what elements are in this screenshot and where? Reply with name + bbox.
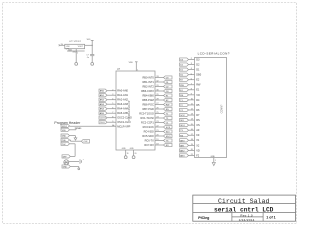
- svg-text:D2: D2: [196, 62, 200, 66]
- svg-text:18: 18: [191, 139, 193, 141]
- svg-text:7: 7: [191, 83, 192, 85]
- svg-text:RB5-PGM: RB5-PGM: [142, 98, 154, 102]
- svg-text:20: 20: [135, 153, 137, 155]
- svg-text:Circuit Salad: Circuit Salad: [218, 198, 269, 205]
- svg-text:C?: C?: [86, 54, 88, 56]
- svg-text:RS: RS: [180, 95, 184, 97]
- svg-text:CONN?: CONN?: [220, 104, 223, 113]
- svg-text:13: 13: [191, 114, 193, 116]
- svg-text:RC2-CCP1: RC2-CCP1: [141, 120, 154, 124]
- svg-text:OSC1-CLKI: OSC1-CLKI: [117, 120, 131, 124]
- svg-text:19: 19: [127, 153, 129, 155]
- svg-text:3: 3: [191, 63, 192, 65]
- svg-text:SDI: SDI: [180, 120, 184, 122]
- svg-text:4: 4: [191, 68, 192, 70]
- svg-text:D5: D5: [196, 103, 200, 107]
- svg-text:U?? LT1117: U?? LT1117: [69, 41, 81, 43]
- svg-text:1: 1: [215, 160, 216, 162]
- svg-text:D4: D4: [196, 98, 200, 102]
- svg-text:1/24/2014: 1/24/2014: [239, 218, 255, 222]
- svg-text:RB1-INT1: RB1-INT1: [142, 80, 154, 84]
- svg-text:RC4-SDI: RC4-SDI: [144, 129, 154, 133]
- svg-text:1 of 1: 1 of 1: [266, 216, 275, 220]
- svg-text:15: 15: [191, 124, 193, 126]
- svg-text:GND: GND: [211, 156, 216, 158]
- svg-text:SDO: SDO: [166, 136, 171, 138]
- svg-text:RC1-T1OSI: RC1-T1OSI: [140, 116, 154, 120]
- svg-text:RC6-TX: RC6-TX: [145, 138, 154, 142]
- svg-text:GND: GND: [63, 167, 68, 169]
- svg-text:RA4-AN4: RA4-AN4: [117, 107, 128, 111]
- svg-text:GND: GND: [62, 136, 67, 138]
- svg-text:1: 1: [137, 70, 138, 72]
- svg-text:2: 2: [191, 58, 192, 60]
- svg-text:RS: RS: [196, 118, 200, 122]
- svg-text:10: 10: [191, 99, 193, 101]
- svg-text:RA3-AN3: RA3-AN3: [117, 102, 128, 106]
- svg-text:PICleg: PICleg: [198, 216, 209, 220]
- svg-text:PGC: PGC: [62, 144, 67, 146]
- svg-text:2: 2: [77, 53, 78, 55]
- svg-text:D3: D3: [196, 57, 200, 61]
- svg-text:RA5-AN5: RA5-AN5: [117, 111, 128, 115]
- svg-text:RX: RX: [166, 145, 170, 147]
- svg-text:D6: D6: [196, 108, 200, 112]
- svg-text:CLKO: CLKO: [100, 118, 106, 120]
- svg-text:RC7-RX: RC7-RX: [144, 143, 154, 147]
- svg-text:19: 19: [191, 144, 193, 146]
- svg-text:D1: D1: [196, 68, 200, 72]
- svg-text:RB0-INT0: RB0-INT0: [142, 75, 154, 79]
- svg-text:SDI: SDI: [166, 132, 170, 134]
- svg-text:SCK: SCK: [180, 115, 185, 117]
- svg-text:RX: RX: [180, 135, 184, 137]
- svg-text:RB2-INT2: RB2-INT2: [142, 84, 154, 88]
- svg-text:RA1-AN1: RA1-AN1: [117, 93, 128, 97]
- svg-text:VDD: VDD: [129, 62, 134, 64]
- svg-text:VO: VO: [196, 93, 200, 97]
- svg-text:OSC2-CLKO: OSC2-CLKO: [117, 116, 132, 120]
- svg-text:5: 5: [191, 73, 192, 75]
- svg-text:MCLR-VPP: MCLR-VPP: [117, 125, 130, 129]
- svg-text:SCK: SCK: [166, 127, 171, 129]
- svg-text:SDO: SDO: [180, 125, 185, 127]
- svg-text:21: 21: [191, 154, 193, 156]
- svg-text:12: 12: [191, 109, 193, 111]
- svg-text:LCD-SERIALCON?: LCD-SERIALCON?: [198, 52, 230, 56]
- svg-text:RC0-T1OSO: RC0-T1OSO: [139, 111, 154, 115]
- svg-text:CS: CS: [196, 123, 200, 127]
- svg-text:9: 9: [191, 93, 192, 95]
- svg-text:VOUT: VOUT: [78, 46, 84, 48]
- svg-text:6: 6: [191, 78, 192, 80]
- svg-text:RC3-SCK: RC3-SCK: [143, 125, 154, 129]
- svg-text:RB7-PGD: RB7-PGD: [142, 107, 153, 111]
- svg-text:.1u: .1u: [86, 57, 89, 59]
- svg-text:PGD: PGD: [62, 140, 67, 142]
- svg-text:MCLR: MCLR: [62, 126, 68, 128]
- svg-text:RC5-SDO: RC5-SDO: [142, 134, 153, 138]
- svg-text:RS: RS: [166, 109, 170, 111]
- svg-text:Rev 1.0: Rev 1.0: [240, 213, 252, 217]
- svg-text:RW: RW: [196, 83, 201, 87]
- svg-text:11: 11: [191, 104, 193, 106]
- svg-text:RB3-CCP2: RB3-CCP2: [141, 89, 154, 93]
- svg-text:VDD: VDD: [62, 130, 67, 132]
- svg-text:VD: VD: [196, 148, 200, 152]
- svg-text:17: 17: [191, 134, 193, 136]
- svg-text:RB4-KBI0: RB4-KBI0: [142, 93, 154, 97]
- svg-text:8: 8: [191, 88, 192, 90]
- svg-text:D7: D7: [196, 113, 200, 117]
- svg-text:10: 10: [112, 125, 114, 127]
- svg-text:RA0-AN0: RA0-AN0: [117, 89, 128, 93]
- svg-text:RA2-AN2: RA2-AN2: [117, 98, 128, 102]
- svg-text:DB0: DB0: [196, 73, 202, 77]
- svg-text:CLK: CLK: [84, 141, 89, 143]
- svg-text:RB6-PGC: RB6-PGC: [142, 102, 153, 106]
- svg-text:16: 16: [191, 129, 193, 131]
- svg-text:14: 14: [191, 119, 193, 121]
- svg-text:CLKI: CLKI: [100, 122, 105, 124]
- svg-text:20: 20: [191, 149, 193, 151]
